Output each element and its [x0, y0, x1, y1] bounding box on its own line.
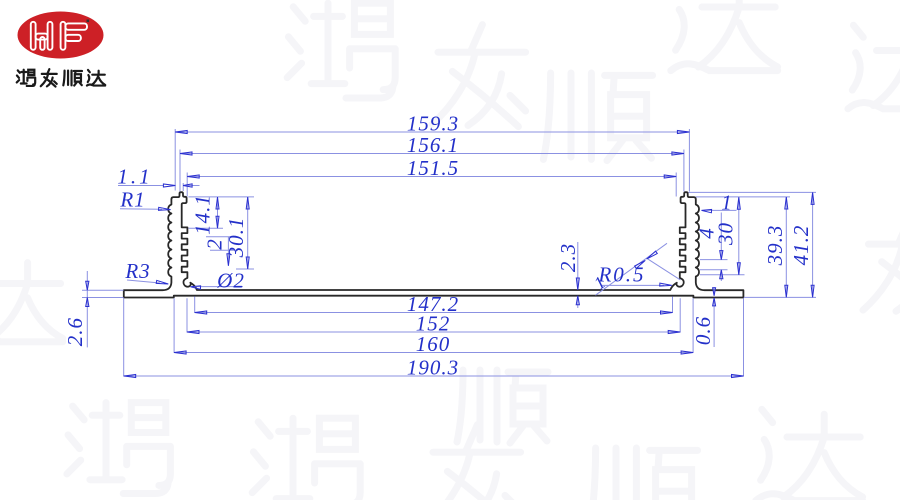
svg-text:Ø2: Ø2: [216, 269, 245, 293]
svg-text:30.1: 30.1: [224, 217, 248, 259]
svg-text:0.6: 0.6: [691, 316, 715, 345]
svg-text:14.1: 14.1: [190, 194, 214, 235]
svg-text:156.1: 156.1: [407, 133, 459, 157]
extrusion profile outline: [124, 192, 744, 297]
svg-text:30: 30: [714, 222, 738, 246]
dimension lines: [82, 129, 816, 377]
svg-text:2.6: 2.6: [63, 317, 87, 346]
svg-text:R3: R3: [124, 259, 150, 283]
svg-text:2.3: 2.3: [556, 243, 580, 272]
svg-text:160: 160: [416, 332, 451, 356]
logo HF ellipse: [18, 12, 104, 59]
svg-text:190.3: 190.3: [407, 356, 459, 380]
svg-text:39.3: 39.3: [763, 225, 787, 267]
svg-text:41.2: 41.2: [789, 225, 813, 266]
dimension texts: [63, 112, 813, 380]
svg-text:159.3: 159.3: [407, 112, 459, 136]
svg-text:R1: R1: [119, 188, 145, 212]
svg-text:1.1: 1.1: [117, 165, 152, 189]
company name text (drawn glyphs): [17, 69, 105, 86]
svg-text:1: 1: [721, 191, 733, 215]
svg-text:151.5: 151.5: [407, 156, 459, 180]
dimension arrows: [86, 131, 814, 378]
